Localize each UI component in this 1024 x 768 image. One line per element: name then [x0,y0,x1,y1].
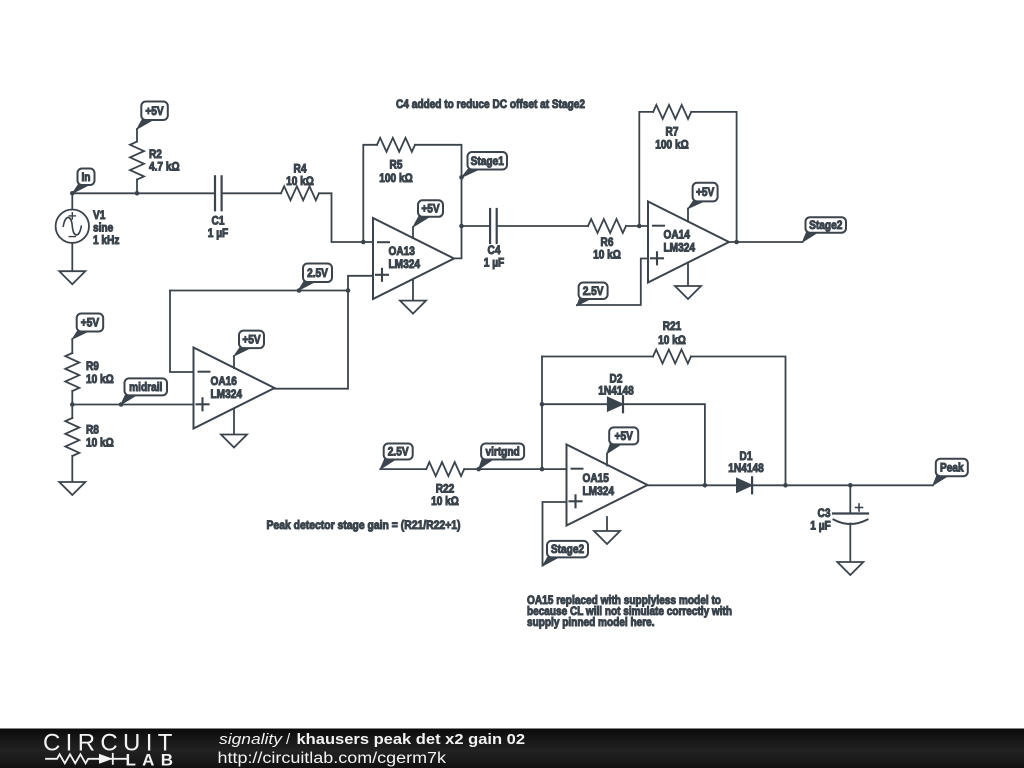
svg-text:R2: R2 [149,149,162,161]
svg-text:10 kΩ: 10 kΩ [86,374,114,386]
svg-text:R8: R8 [86,425,99,437]
svg-text:supply pinned model here.: supply pinned model here. [527,617,655,629]
svg-text:+5V: +5V [696,187,715,199]
svg-text:In: In [82,172,91,184]
svg-text:1N4148: 1N4148 [598,386,634,398]
svg-text:R5: R5 [390,160,403,172]
svg-text:OA16: OA16 [211,376,237,388]
svg-text:LM324: LM324 [664,243,696,255]
svg-text:R7: R7 [666,127,679,139]
svg-text:2.5V: 2.5V [583,286,604,298]
svg-text:virtgnd: virtgnd [485,447,519,459]
svg-text:Stage2: Stage2 [551,544,584,556]
svg-text:10 kΩ: 10 kΩ [86,438,114,450]
svg-text:1N4148: 1N4148 [728,463,764,475]
svg-text:1 µF: 1 µF [208,228,229,240]
svg-text:4.7 kΩ: 4.7 kΩ [149,162,180,174]
svg-text:+5V: +5V [242,334,261,346]
svg-text:10 kΩ: 10 kΩ [593,250,621,262]
svg-text:OA15: OA15 [583,473,610,485]
svg-text:+5V: +5V [81,318,100,330]
svg-text:10 kΩ: 10 kΩ [286,176,314,188]
svg-text:D2: D2 [610,374,623,386]
svg-text:1 µF: 1 µF [484,258,505,270]
svg-text:10 kΩ: 10 kΩ [658,335,686,347]
svg-text:R6: R6 [601,237,614,249]
svg-text:1 µF: 1 µF [810,521,831,533]
svg-text:LAB: LAB [126,751,179,768]
svg-text:Peak detector stage gain = (R2: Peak detector stage gain = (R21/R22+1) [267,520,461,532]
svg-text:sine: sine [93,223,113,235]
svg-text:signality: signality [219,731,284,748]
svg-text:C3: C3 [818,508,831,520]
svg-text:C4: C4 [488,245,501,257]
svg-text:2.5V: 2.5V [307,268,328,280]
svg-text:100 kΩ: 100 kΩ [379,173,412,185]
svg-text:OA14: OA14 [664,230,691,242]
svg-text:Peak: Peak [940,462,964,474]
svg-text:R4: R4 [294,164,307,176]
svg-text:http://circuitlab.com/cgerm7k: http://circuitlab.com/cgerm7k [218,750,447,767]
svg-text:+5V: +5V [615,431,634,443]
svg-text:C1: C1 [212,216,225,228]
svg-text:R21: R21 [663,321,682,333]
svg-text:+5V: +5V [145,106,164,118]
svg-text:D1: D1 [740,451,753,463]
svg-text:2.5V: 2.5V [388,447,409,459]
svg-text:khausers peak det x2 gain 02: khausers peak det x2 gain 02 [297,731,526,748]
svg-text:R22: R22 [436,484,455,496]
svg-text:OA13: OA13 [389,246,415,258]
svg-text:1 kHz: 1 kHz [93,235,120,247]
svg-text:LM324: LM324 [583,486,615,498]
svg-text:V1: V1 [93,210,106,222]
svg-text:LM324: LM324 [211,389,243,401]
svg-text:R9: R9 [86,361,99,373]
svg-text:LM324: LM324 [389,259,421,271]
svg-text:10 kΩ: 10 kΩ [431,496,459,508]
svg-text:midrail: midrail [129,382,162,394]
svg-text:100 kΩ: 100 kΩ [655,140,688,152]
svg-text:C4 added to reduce DC offset a: C4 added to reduce DC offset at Stage2 [396,99,585,111]
svg-text:Stage2: Stage2 [809,220,842,232]
svg-text:+5V: +5V [421,204,440,216]
svg-text:Stage1: Stage1 [471,156,505,168]
